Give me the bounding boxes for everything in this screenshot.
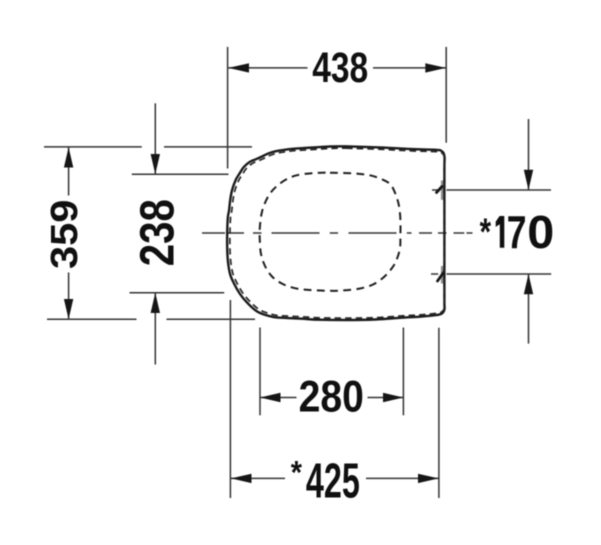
svg-text:438: 438 [312, 44, 368, 92]
svg-text:*: * [480, 211, 492, 253]
svg-text:280: 280 [299, 371, 364, 421]
svg-text:238: 238 [131, 199, 184, 266]
svg-text:359: 359 [43, 200, 85, 269]
svg-text:425: 425 [306, 453, 360, 509]
svg-text:*: * [291, 455, 302, 491]
svg-text:0: 0 [527, 207, 554, 259]
svg-text:7: 7 [507, 206, 527, 258]
